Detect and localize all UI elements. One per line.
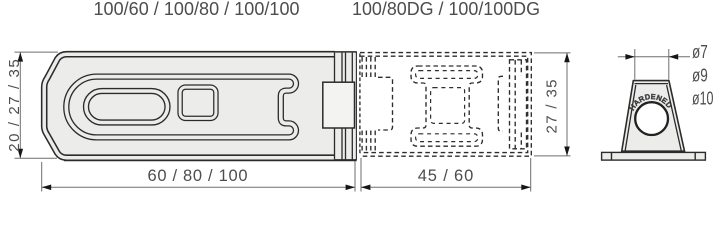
base plate hole lines <box>612 152 696 160</box>
arrow 60/80/100 left <box>42 185 51 191</box>
arrow 27/35 bottom <box>564 147 570 156</box>
hidden staple loop mid line <box>514 60 516 149</box>
arrow 27/35 top <box>564 53 570 62</box>
dim line 20/27/35 <box>19 52 21 158</box>
svg-text:27 / 35: 27 / 35 <box>543 80 560 134</box>
ext line bottom x361 <box>360 158 362 192</box>
arrow 20/27/35 top <box>18 52 24 61</box>
dim line o7 <box>618 56 690 58</box>
embossed rib with end hooks <box>66 77 296 138</box>
hinge curl lines bottom <box>335 128 353 159</box>
dim line 27/35 <box>566 53 568 156</box>
staple trapezoid body <box>622 81 685 152</box>
hinge knuckle <box>323 82 355 128</box>
hidden staple bracket <box>498 76 503 131</box>
hidden staple loop rect <box>510 60 527 149</box>
staple inner side lines <box>625 84 681 151</box>
plate top edge to hinge <box>335 51 357 53</box>
ext lines o7 <box>634 49 636 80</box>
hidden hinge bracket <box>378 77 393 130</box>
dashed leaf inner outline <box>360 56 528 152</box>
square padlock hole <box>180 87 216 118</box>
staple base thick line <box>622 150 685 152</box>
plate outline double line <box>44 54 335 158</box>
ext line bottom x355 <box>354 161 356 192</box>
oval slot <box>86 91 168 123</box>
hidden hinge curl lines bottom-left <box>362 131 375 152</box>
svg-text:100/60 / 100/80 / 100/100: 100/60 / 100/80 / 100/100 <box>94 0 300 19</box>
ext line plate top-left <box>15 51 59 53</box>
ext lines 27/35 <box>534 52 571 54</box>
hidden hinge curl lines top-left <box>362 57 375 78</box>
staple hole <box>635 102 668 135</box>
plate bottom edge to hinge <box>335 159 357 161</box>
arrow 20/27/35 bottom <box>18 149 24 158</box>
svg-text:60 / 80 / 100: 60 / 80 / 100 <box>148 167 248 185</box>
hidden fold edge <box>359 54 361 156</box>
svg-text:45 / 60: 45 / 60 <box>418 167 474 185</box>
dashed leaf outer outline <box>360 53 531 157</box>
hidden staple slot I-shape outer <box>411 66 483 146</box>
hidden staple lines top-right <box>520 60 522 76</box>
plate hinge end edge <box>355 52 357 160</box>
arrow 60/80/100 right <box>346 185 355 191</box>
svg-text:100/80DG / 100/100DG: 100/80DG / 100/100DG <box>352 0 540 19</box>
hidden staple slot I-shape inner bottom <box>416 134 478 142</box>
svg-text:20 / 27 / 35: 20 / 27 / 35 <box>6 59 23 152</box>
arrow 45/60 left <box>361 185 370 191</box>
ext line bottom x530.7 <box>530 158 532 192</box>
ext line plate bottom-left <box>15 157 58 159</box>
plate body fill <box>42 52 357 161</box>
staple base plate <box>602 152 706 160</box>
ext line bottom x41.7 <box>41 162 43 192</box>
arrow o7 right <box>669 54 678 60</box>
hinge curl lines top <box>335 53 353 83</box>
arrow o7 left <box>625 54 634 60</box>
plate bottom edge emphasis <box>64 159 357 161</box>
hidden staple slot I-shape inner waist <box>431 88 465 124</box>
hidden staple lines bottom-right <box>520 133 522 149</box>
svg-text:ø10: ø10 <box>692 89 714 109</box>
svg-text:ø7: ø7 <box>692 42 708 62</box>
dim line 60/80/100 <box>42 186 355 188</box>
arrow 45/60 right <box>521 185 530 191</box>
hidden staple slot I-shape inner top <box>416 71 478 79</box>
dim line 45/60 <box>361 186 531 188</box>
svg-text:ø9: ø9 <box>692 65 708 85</box>
